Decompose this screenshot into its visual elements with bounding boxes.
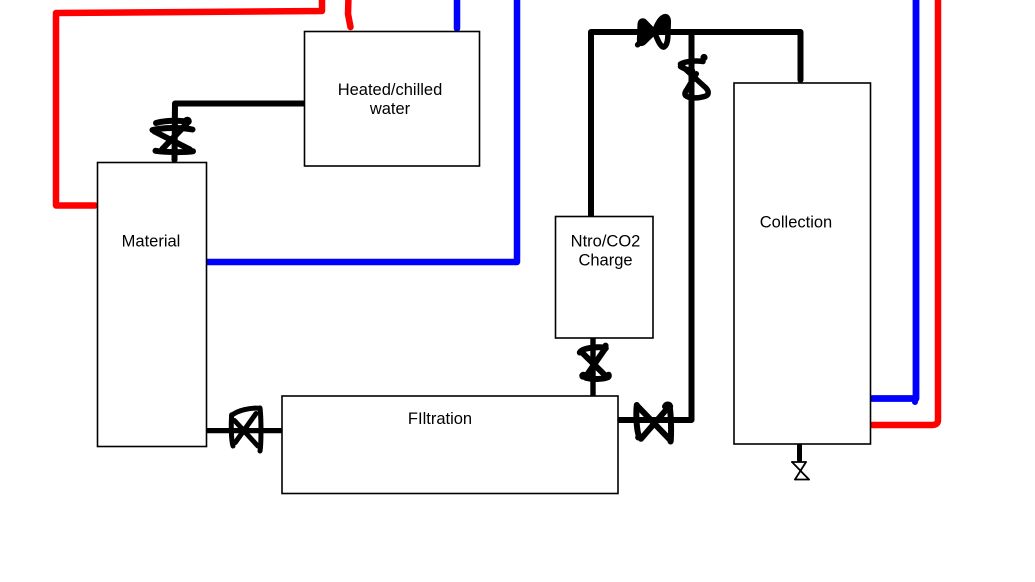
svg-text:Ntro/CO2: Ntro/CO2 — [571, 233, 641, 251]
svg-text:Heated/chilled: Heated/chilled — [338, 81, 443, 99]
svg-text:Charge: Charge — [578, 252, 632, 270]
svg-text:water: water — [369, 100, 411, 118]
svg-text:Collection: Collection — [760, 214, 832, 232]
svg-text:Material: Material — [122, 233, 181, 251]
svg-text:FIltration: FIltration — [408, 410, 472, 428]
